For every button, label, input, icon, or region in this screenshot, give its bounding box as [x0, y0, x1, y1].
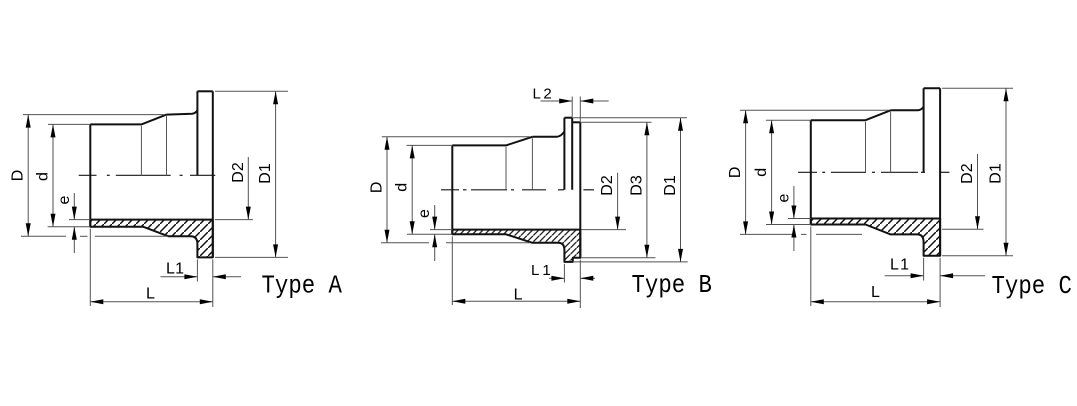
- barrel top edge to flange fillet: [167, 110, 198, 114]
- svg-text:D3: D3: [628, 175, 645, 196]
- svg-text:d: d: [394, 183, 411, 192]
- svg-text:D1: D1: [257, 163, 274, 184]
- ext line D1 top: [215, 90, 288, 92]
- svg-text:D2: D2: [959, 163, 976, 184]
- svg-text:L1: L1: [890, 257, 910, 274]
- dimension L fig3: [811, 301, 940, 303]
- dimension d fig3: [771, 120, 773, 224]
- pipe end left face: [89, 124, 91, 226]
- centerline fig3: [798, 171, 817, 173]
- taper tangent line 2: [166, 116, 168, 175]
- dimension L1 fig3: [885, 275, 924, 277]
- flange top edge: [197, 90, 212, 92]
- ext line e top / bore: [430, 229, 452, 231]
- svg-text:Type B: Type B: [632, 272, 712, 301]
- ext line L left: [89, 229, 91, 306]
- flange left face: [923, 88, 925, 172]
- ext line D2 bottom: [942, 228, 983, 230]
- dimension D2 fig3: [977, 154, 979, 229]
- dimension e fig2: [434, 205, 436, 230]
- dimension L fig2: [452, 300, 580, 302]
- dimension L2 fig2: [541, 100, 573, 102]
- barrel top edge to flange fillet: [532, 132, 564, 137]
- collar right face: [579, 122, 581, 257]
- flange left face: [563, 118, 565, 190]
- dimension D2 fig1: [247, 157, 249, 220]
- ext line D top: [740, 109, 889, 111]
- svg-text:D2: D2: [230, 162, 247, 183]
- sectioned wall (lower half, hatched): [811, 219, 940, 256]
- ext line d top: [766, 119, 811, 121]
- svg-text:D1: D1: [988, 163, 1005, 184]
- ext line L left: [451, 236, 453, 305]
- svg-text:L: L: [871, 284, 880, 301]
- svg-text:d: d: [753, 168, 770, 177]
- dimension e fig3: [793, 186, 795, 219]
- ext line e top / bore: [788, 218, 811, 220]
- svg-text:Type A: Type A: [262, 272, 343, 301]
- flange top edge: [564, 117, 572, 119]
- spigot top edge + taper (Type A): [90, 115, 166, 125]
- ext line L1 left: [196, 259, 198, 281]
- ext line D top: [23, 114, 165, 116]
- dimension e fig1: [73, 193, 75, 220]
- svg-text:D: D: [369, 182, 386, 194]
- flange right face: [212, 91, 214, 257]
- svg-text:e: e: [416, 209, 433, 218]
- sectioned wall (lower half, hatched): [452, 230, 580, 262]
- centerline fig1: [79, 174, 97, 176]
- ext line D2 bottom: [215, 219, 253, 221]
- svg-text:L1: L1: [531, 262, 554, 279]
- ext line L1/L right: [939, 258, 941, 307]
- dimension D1 fig1: [275, 91, 277, 257]
- taper tangent line 2: [890, 112, 892, 173]
- svg-text:Type C: Type C: [992, 273, 1072, 302]
- flange left face: [196, 91, 198, 175]
- ext line D bottom (dashed across part): [740, 233, 792, 235]
- ext line D top: [382, 136, 530, 138]
- svg-text:e: e: [775, 193, 792, 202]
- ext line D1 top: [573, 117, 687, 119]
- dimension D fig3: [745, 110, 747, 234]
- ext line D1 bottom: [942, 255, 1013, 257]
- ext line d top: [48, 123, 90, 125]
- ext line D1 top: [942, 87, 1013, 89]
- dimension L1 fig1: [161, 276, 198, 278]
- taper tangent line 2: [531, 138, 533, 190]
- ext line L1 left: [923, 258, 925, 281]
- svg-text:D: D: [10, 170, 27, 182]
- svg-text:L1: L1: [166, 260, 184, 277]
- ext line L left: [810, 227, 812, 307]
- ext line D1 bottom: [573, 261, 688, 263]
- dimension L1 fig2: [549, 277, 564, 279]
- pipe end left face: [451, 145, 453, 234]
- ext line d bottom: [766, 224, 811, 226]
- flange top edge: [924, 87, 941, 89]
- dimension L fig1: [90, 301, 213, 303]
- flange right face: [939, 88, 941, 256]
- ext line e top / bore: [69, 219, 90, 221]
- ext line L1/L right: [579, 260, 581, 308]
- svg-text:D2: D2: [599, 175, 616, 196]
- svg-text:L: L: [514, 287, 523, 304]
- taper tangent line 1: [505, 147, 507, 190]
- collar top edge: [572, 121, 580, 123]
- svg-text:d: d: [35, 172, 52, 181]
- svg-text:D1: D1: [662, 175, 679, 196]
- ext line L2 right: [579, 97, 581, 123]
- sectioned wall (lower half, hatched): [90, 220, 213, 258]
- spigot top edge + taper (Type C): [811, 110, 891, 120]
- ext line D bottom (dashed across part): [21, 235, 66, 237]
- centerline fig2: [441, 189, 459, 191]
- dimension D1 fig3: [1005, 88, 1007, 256]
- dimension D2 fig2: [617, 173, 619, 230]
- svg-text:L2: L2: [533, 85, 555, 102]
- taper tangent line 1: [865, 122, 867, 173]
- ext line d bottom: [407, 233, 452, 235]
- dimension d fig2: [411, 145, 413, 234]
- ext line L1/L right: [212, 259, 214, 307]
- dimension d fig1: [52, 124, 54, 226]
- ext line L2 left: [571, 97, 573, 118]
- pipe end left face: [810, 120, 812, 224]
- dimension D1 fig2: [680, 118, 682, 262]
- dimension D3 fig2: [646, 122, 648, 257]
- dimension D fig1: [27, 115, 29, 237]
- spigot top edge + taper (Type B): [452, 137, 532, 146]
- ext line d bottom: [48, 226, 91, 228]
- svg-text:D: D: [727, 167, 744, 179]
- ext line D2 bottom: [581, 229, 626, 231]
- flange right face: [571, 118, 573, 190]
- svg-text:L: L: [146, 285, 155, 302]
- svg-text:e: e: [56, 195, 73, 204]
- ext line d top: [407, 144, 453, 146]
- ext line D bottom (dashed across part): [381, 242, 429, 244]
- ext line L1 left: [563, 264, 565, 283]
- ext line D3 top: [581, 121, 651, 123]
- taper tangent line 1: [140, 126, 142, 175]
- ext line D3 bottom: [581, 257, 655, 259]
- ext line D1 bottom: [215, 256, 288, 258]
- barrel top edge to flange fillet: [891, 107, 924, 111]
- dimension D fig2: [386, 137, 388, 243]
